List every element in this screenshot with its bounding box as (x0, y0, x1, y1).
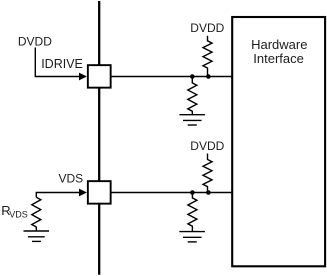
resistor: DVDD pull-up on IDRIVE net (203, 36, 212, 77)
label RVDS (1, 203, 28, 220)
resistor: pull-down on IDRIVE net (188, 77, 197, 115)
junction on VDS net (pull-up) (206, 190, 211, 195)
resistor RVDS (32, 197, 41, 231)
wire: VDS pin to hardware interface (111, 192, 233, 194)
ground (IDRIVE pull-down) (179, 115, 205, 125)
svg-text:IDRIVE: IDRIVE (41, 57, 83, 71)
junction on VDS net (pull-down) (190, 190, 195, 195)
svg-text:DVDD: DVDD (190, 139, 224, 153)
svg-text:Hardware: Hardware (251, 37, 307, 52)
resistor: DVDD pull-up on VDS net (203, 154, 212, 193)
wire: RVDS to VDS pin with arrow (36, 189, 87, 198)
wire: vertical bus net (98, 1, 100, 275)
pin box VDS (device terminal) (88, 181, 111, 204)
pin box IDRIVE (device terminal) (88, 65, 111, 88)
resistor: pull-down on VDS net (188, 193, 197, 232)
svg-text:DVDD: DVDD (18, 34, 52, 48)
svg-text:DVDD: DVDD (190, 21, 224, 35)
wire: IDRIVE pin to hardware interface (111, 76, 233, 78)
svg-text:Interface: Interface (253, 51, 304, 66)
junction on IDRIVE net (pull-up) (206, 74, 211, 79)
svg-text:VDS: VDS (59, 172, 84, 186)
wire: DVDD to IDRIVE pin with arrow (35, 48, 87, 81)
ground (VDS pull-down) (179, 232, 205, 242)
junction on IDRIVE net (pull-down) (190, 74, 195, 79)
svg-text:VDS: VDS (9, 210, 28, 220)
hardware interface block U1 (232, 17, 325, 266)
ground (RVDS) (24, 231, 50, 241)
